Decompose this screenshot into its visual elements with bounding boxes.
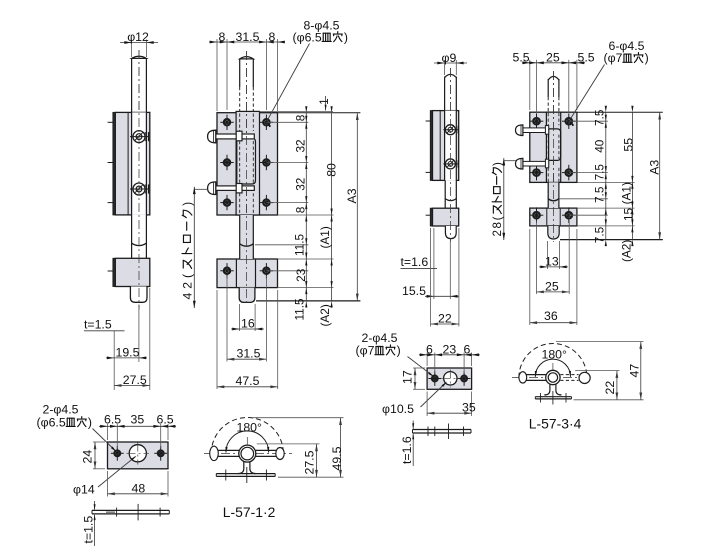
svg-text:40: 40 xyxy=(593,139,607,153)
keeper hole connector xyxy=(266,270,308,272)
svg-text:23: 23 xyxy=(443,343,457,357)
dimension 6.5/35/6.5 line xyxy=(99,425,176,427)
view4 rod tip xyxy=(548,226,559,239)
17 extensions xyxy=(413,367,425,369)
view1 rod right edge xyxy=(145,59,147,113)
svg-text:6.5: 6.5 xyxy=(157,413,174,427)
view1 knob circle y=189.0 xyxy=(133,183,145,195)
view2 rod between plates xyxy=(239,215,241,259)
view1 centerline overlay xyxy=(138,50,140,308)
svg-text:48: 48 xyxy=(132,481,146,495)
svg-text:49.5: 49.5 xyxy=(330,446,344,470)
svg-text:φ12: φ12 xyxy=(127,30,149,44)
svg-text:(A2): (A2) xyxy=(318,304,332,326)
plan2 vertical centerline xyxy=(552,363,554,385)
view2 centerline overlay xyxy=(246,51,248,304)
dim 1 arrow xyxy=(325,96,327,111)
svg-text:24: 24 xyxy=(81,450,95,464)
plan1 base bottom ref right xyxy=(278,476,344,478)
view2 rod centerline xyxy=(246,51,248,305)
view4 keeper hole right xyxy=(566,212,573,219)
svg-text:22: 22 xyxy=(438,312,452,326)
view2 handle bottom pin xyxy=(215,186,255,191)
plan1 arc arrows xyxy=(225,447,227,454)
view4 rod above body xyxy=(547,79,549,97)
dimension phi9 line xyxy=(434,62,467,64)
leader to hole view4 xyxy=(571,65,605,119)
view3 rod tip xyxy=(445,226,456,239)
view1 middle rod left xyxy=(131,215,133,258)
view2 screw hole (266.4,202.6) xyxy=(263,199,269,205)
stroke 28 dim line xyxy=(503,158,505,240)
svg-text:t=1.6: t=1.6 xyxy=(401,255,429,269)
view2 body channel xyxy=(236,111,259,215)
47.5 extension lines xyxy=(216,290,218,389)
view3 rod joint arc xyxy=(445,199,456,201)
view1 knob circle y=136.6 xyxy=(133,131,145,143)
view2 handle bottom collar xyxy=(236,184,242,193)
view4 knob top xyxy=(516,125,523,136)
view1 rod strip in front xyxy=(132,112,147,214)
dimension 22 plan2 xyxy=(616,371,618,400)
view3 mounting plate edge strip xyxy=(430,111,432,181)
keeper2 crosshair xyxy=(449,370,451,388)
view1 rod tip xyxy=(130,287,147,303)
view3 keeper block side xyxy=(433,208,459,226)
dimension 17 line xyxy=(414,368,416,389)
svg-text:32: 32 xyxy=(294,139,308,152)
svg-text:(A1): (A1) xyxy=(619,182,633,204)
view4 keeper bottom extended xyxy=(577,225,635,227)
view2 screw hole (227.0,202.6) xyxy=(224,199,230,205)
svg-text:(: ( xyxy=(491,216,504,220)
plan1 right bar xyxy=(256,449,277,451)
svg-text:15.5: 15.5 xyxy=(402,284,426,298)
svg-text:6: 6 xyxy=(426,343,433,357)
plan1 bracket stem xyxy=(238,462,257,474)
keeper2 center hole phi10.5 xyxy=(444,372,457,385)
svg-text:27.5: 27.5 xyxy=(303,450,317,474)
view4 keeper plate xyxy=(530,208,577,226)
svg-text:1: 1 xyxy=(319,98,331,104)
keeper1 plate xyxy=(108,442,169,469)
view2 mounting plate xyxy=(217,113,278,215)
svg-text:31.5: 31.5 xyxy=(236,30,260,44)
svg-text:55: 55 xyxy=(621,138,635,152)
t=1.5 dim arrows xyxy=(94,501,96,510)
svg-text:7.5: 7.5 xyxy=(593,164,607,181)
dimension 19.5 line xyxy=(106,357,147,359)
view1 body block xyxy=(115,112,150,214)
keeper1 hole right xyxy=(158,450,164,456)
leader keeper1 xyxy=(93,429,116,452)
svg-text:8: 8 xyxy=(219,30,226,44)
view4 hole connectors xyxy=(569,120,608,122)
view1 keeper plate edge strip xyxy=(113,258,115,286)
plan1 base ticks xyxy=(225,470,227,481)
view4 rod joint arc xyxy=(548,199,559,201)
svg-text:7.5: 7.5 xyxy=(593,109,607,126)
svg-text:13: 13 xyxy=(545,254,559,268)
plan1 dashed swing arc xyxy=(211,418,283,454)
keeper1 edge view bar xyxy=(92,509,169,511)
svg-text:8: 8 xyxy=(491,222,504,228)
13 extensions xyxy=(547,241,549,269)
view4 keeper slot edges xyxy=(546,209,548,226)
view4 body channel xyxy=(546,112,560,182)
view2 rod joint arc xyxy=(240,244,254,246)
view2 rod hidden above plate xyxy=(239,87,241,111)
dimension 6/23/6 line xyxy=(419,354,480,356)
view4 handle bottom collar xyxy=(545,159,548,168)
view4 mounting plate xyxy=(530,112,577,182)
view3 keeper plate strip xyxy=(430,208,432,226)
keeper top extended xyxy=(278,258,334,260)
view3 knob circle y=129.7 xyxy=(445,125,455,135)
svg-text:8: 8 xyxy=(294,206,308,213)
plan2 phantom knob xyxy=(579,372,590,383)
keeper2 hole right xyxy=(461,376,467,382)
svg-text:): ) xyxy=(88,415,92,429)
svg-text:6: 6 xyxy=(464,343,471,357)
phi9 extensions xyxy=(444,60,446,75)
view4 handle top pin xyxy=(523,128,549,133)
plan1 180deg arc xyxy=(226,431,269,452)
svg-text:31.5: 31.5 xyxy=(237,347,261,361)
svg-text:t=1.5: t=1.5 xyxy=(81,516,95,544)
svg-text:8: 8 xyxy=(269,30,276,44)
dimension 49.5 plan1 xyxy=(340,418,342,478)
view3 mid rod fill xyxy=(445,180,456,208)
view1 rod top dome xyxy=(132,56,147,58)
svg-text:t=1.5: t=1.5 xyxy=(84,318,112,332)
keeper2 edge ticks xyxy=(448,424,450,440)
view2 top extension lines xyxy=(216,39,218,111)
keeper1 center hole phi14 xyxy=(129,445,146,462)
svg-text:): ) xyxy=(645,51,649,65)
36 extensions xyxy=(529,229,531,325)
svg-text:): ) xyxy=(344,30,348,44)
view2 keeper plate xyxy=(217,259,278,288)
dimension 5.5/25/5.5 line xyxy=(522,62,585,64)
plate top extended to A3 xyxy=(278,112,361,114)
plan2 base ticks xyxy=(540,393,542,403)
16 extension lines xyxy=(239,304,241,331)
view3 keeper hole mark xyxy=(426,214,431,216)
keeper1 crosshair xyxy=(137,443,139,465)
view2 handle top collar xyxy=(236,131,242,141)
svg-text:(A2): (A2) xyxy=(619,240,633,262)
view4 screw hole (536.5,121.2) xyxy=(533,118,540,125)
plan1 vertical centerline xyxy=(246,437,248,462)
view1 mounting plate edge strip xyxy=(113,112,115,214)
view2 rod above body xyxy=(239,59,241,88)
view4 A3 dimension line xyxy=(659,112,661,239)
rod tip line extended to A3 xyxy=(256,300,360,302)
plan1 pivot outer circle xyxy=(239,445,256,462)
svg-text:25: 25 xyxy=(545,280,559,294)
svg-text:35: 35 xyxy=(462,401,476,415)
view4 keeper hole connector xyxy=(569,214,608,216)
view1 hole mark y=122.3 xyxy=(108,121,113,123)
view2 screw hole (227.0,162.5) xyxy=(224,159,230,165)
plan1 pivot inner circle xyxy=(241,447,254,460)
svg-text:2: 2 xyxy=(180,282,194,289)
dimension phi12 line xyxy=(120,42,158,44)
channel top extended (1 dim) xyxy=(260,110,334,112)
view1 rod strip edges xyxy=(131,112,133,214)
view4 slider block xyxy=(549,129,561,161)
plan2 right bar hidden xyxy=(560,374,578,376)
view1 rod joint arc xyxy=(132,243,147,245)
svg-text:φ14: φ14 xyxy=(73,482,95,496)
plan2 base edge xyxy=(535,396,571,398)
svg-text:(φ6.5: (φ6.5 xyxy=(293,30,322,44)
plan1 right knob xyxy=(276,448,284,460)
stroke 42 dim line xyxy=(193,187,195,308)
view4 screw hole (536.5,172.6) xyxy=(533,169,540,176)
plate bottom extended xyxy=(278,214,334,216)
dimension 16 line xyxy=(231,328,264,330)
leader keeper2 xyxy=(408,357,434,377)
svg-text:27.5: 27.5 xyxy=(123,373,147,387)
leader line to hole xyxy=(268,44,310,120)
svg-text:(: ( xyxy=(180,274,194,278)
view2 rod hidden segments xyxy=(239,114,241,132)
A3 dimension line xyxy=(356,113,358,301)
view3 middle rod xyxy=(444,180,446,208)
svg-text:φ10.5: φ10.5 xyxy=(382,402,414,416)
keeper1 edge ticks xyxy=(137,504,139,521)
svg-text:(A1): (A1) xyxy=(318,226,332,248)
svg-text:80: 80 xyxy=(325,163,339,177)
plan2 pivot inner circle xyxy=(548,373,557,382)
view2 knob top xyxy=(208,130,216,143)
view4 handle bottom pin xyxy=(523,161,549,166)
view3 rod strip in front xyxy=(445,111,457,181)
plan1 horizontal centerline xyxy=(204,453,292,455)
view1 hole mark y=202.6 xyxy=(108,202,113,204)
svg-text:23: 23 xyxy=(294,268,308,282)
dimension 36 line xyxy=(530,322,577,324)
svg-text:7.5: 7.5 xyxy=(593,186,607,203)
svg-text:): ) xyxy=(491,162,504,166)
15.5 extensions xyxy=(433,228,435,299)
31.5 extension lines xyxy=(226,276,228,362)
svg-text:5.5: 5.5 xyxy=(578,51,595,65)
hole row connectors xyxy=(266,121,308,123)
view2 slider block xyxy=(237,138,256,184)
svg-text:(φ7: (φ7 xyxy=(356,344,375,358)
plan2 bracket stem xyxy=(544,384,561,395)
svg-text:(φ6.5: (φ6.5 xyxy=(37,415,66,429)
svg-text:11.5: 11.5 xyxy=(293,298,307,321)
plan2 dashed swing arc xyxy=(519,344,587,378)
label 28 stroke xyxy=(491,162,504,237)
dimension 47 plan2 xyxy=(640,342,642,400)
svg-text:2-φ4.5: 2-φ4.5 xyxy=(43,402,79,416)
chain dimension line xyxy=(305,113,307,301)
svg-text:φ9: φ9 xyxy=(442,51,457,65)
svg-text:A3: A3 xyxy=(345,188,359,203)
view3 hole mark y=172.4 xyxy=(426,171,431,173)
svg-text:2: 2 xyxy=(491,230,504,236)
22 extensions xyxy=(430,228,432,327)
plan1 left knob xyxy=(210,446,219,460)
view4 knob bottom xyxy=(516,158,523,169)
keeper2 top extensions xyxy=(426,353,428,367)
dimension 31.5 line xyxy=(227,358,266,360)
view4 tube end connector xyxy=(559,198,608,200)
view3 body block xyxy=(433,111,459,181)
view2 screw hole (227.0,122.3) xyxy=(224,119,230,125)
plan2 47 top ref xyxy=(556,341,644,343)
25 extensions xyxy=(536,221,538,295)
view4 rod hidden xyxy=(547,97,549,112)
view3 centerline overlay xyxy=(449,68,451,241)
view4 rod hidden segments xyxy=(547,113,549,125)
view1 lower extension lines xyxy=(113,331,115,390)
view1 middle rod right xyxy=(145,215,147,258)
view2 screw hole (266.4,122.3) xyxy=(263,119,269,125)
view1 body channel edge line xyxy=(127,112,129,214)
view4 top extensions xyxy=(529,60,531,110)
svg-text:t=1.6: t=1.6 xyxy=(400,436,414,464)
keeper2 plate xyxy=(427,368,472,389)
tube end connector xyxy=(255,244,308,246)
view1 rod centerline xyxy=(138,50,140,310)
view2 keeper hole left xyxy=(224,268,230,274)
svg-text:L-57-1·2: L-57-1·2 xyxy=(223,504,276,520)
svg-text:11.5: 11.5 xyxy=(293,233,307,256)
second dimension line 80/A1/A2 xyxy=(331,113,333,301)
svg-text:7.5: 7.5 xyxy=(593,226,607,243)
keeper bottom extended xyxy=(278,287,334,289)
view4 plate top extended xyxy=(577,111,663,113)
svg-text:16: 16 xyxy=(241,317,255,331)
view4 mid rod fill xyxy=(548,182,559,208)
plan2 22 top ref xyxy=(575,370,620,372)
plan2 left knob xyxy=(519,372,527,383)
phi12 extension lines xyxy=(131,40,133,58)
view1 rod left edge xyxy=(131,59,133,113)
svg-text:): ) xyxy=(180,202,194,206)
view2 knob bottom xyxy=(208,182,216,195)
view3 hole mark y=121.0 xyxy=(426,120,431,122)
svg-text:32: 32 xyxy=(294,178,308,191)
keeper1 hole left xyxy=(114,450,120,456)
view2 handle top pin xyxy=(215,134,255,139)
view4 keeper top extended xyxy=(577,207,635,209)
dimension 8/31.5/8 line xyxy=(209,41,285,43)
label 42 stroke xyxy=(180,202,194,300)
plan2 base bottom ref xyxy=(574,399,644,401)
view4 rod tip line extended xyxy=(560,239,663,241)
view3 rod top dome xyxy=(445,74,457,77)
plan1 27.5 top ref xyxy=(257,443,320,445)
view1 keeper hole mark xyxy=(108,270,113,272)
plan1 base ends xyxy=(215,474,217,477)
svg-text:35: 35 xyxy=(131,413,145,427)
view4 rod between plates xyxy=(547,182,549,208)
view2 rod tip xyxy=(239,288,255,303)
view2 mid rod fill xyxy=(240,215,254,259)
t=1.6 dim arrows xyxy=(412,421,414,429)
view4 screw hole (568.8,121.2) xyxy=(566,118,573,125)
plan2 left bar xyxy=(527,374,547,376)
dimension 35 line xyxy=(427,412,472,414)
view4 rod top dome xyxy=(548,76,559,80)
plan2 arc arrows xyxy=(535,371,537,378)
view2 screw hole (266.4,162.5) xyxy=(263,159,269,165)
dimension 24 line xyxy=(94,442,96,469)
view4 second line xyxy=(631,112,633,239)
view2 keeper slot edges xyxy=(235,260,237,287)
view4 rod centerline xyxy=(553,71,555,242)
plan2 pivot outer circle xyxy=(546,370,560,384)
svg-text:19.5: 19.5 xyxy=(116,345,140,359)
svg-text:25: 25 xyxy=(546,51,560,65)
svg-text:17: 17 xyxy=(401,370,415,384)
plan1 left bar xyxy=(218,449,240,451)
view2 keeper hole right xyxy=(263,268,269,274)
plan1 base plate edge xyxy=(216,473,275,475)
svg-text:47.5: 47.5 xyxy=(236,374,260,388)
svg-text:6.5: 6.5 xyxy=(104,413,121,427)
keeper2 edge bar xyxy=(413,429,472,431)
svg-text:180°: 180° xyxy=(237,421,263,435)
plan2 horizontal centerline xyxy=(512,377,592,379)
keeper2 hole left xyxy=(432,376,438,382)
dimension 15.5 line xyxy=(425,295,459,297)
plan1 49.5 top ref xyxy=(252,417,344,419)
view3 channel edge line xyxy=(439,111,441,181)
plan2 base ends xyxy=(534,397,536,399)
keeper1 top extensions xyxy=(107,424,109,440)
svg-text:180°: 180° xyxy=(542,348,568,362)
view4 keeper hole left xyxy=(533,212,540,219)
dimension 13 line xyxy=(539,266,568,268)
view4 chain line xyxy=(605,112,607,239)
view1 keeper block side xyxy=(115,258,150,286)
view3 rod centerline xyxy=(449,68,451,242)
svg-text:15: 15 xyxy=(621,207,635,221)
svg-text:22: 22 xyxy=(603,381,617,395)
plan2 180deg arc xyxy=(535,359,570,377)
dimension 22 line xyxy=(431,323,459,325)
view4 plate bottom extended xyxy=(577,181,635,183)
svg-text:L-57-3·4: L-57-3·4 xyxy=(529,416,582,432)
35 extensions keeper2 xyxy=(426,392,428,417)
dimension 47.5 line xyxy=(217,386,278,388)
svg-text:(φ7: (φ7 xyxy=(604,51,623,65)
view2 rod top dome xyxy=(240,57,254,59)
stroke connector xyxy=(194,188,207,190)
24 extensions xyxy=(93,441,105,443)
svg-text:36: 36 xyxy=(544,309,558,323)
svg-text:8: 8 xyxy=(294,114,308,121)
view3 knob circle y=163.9 xyxy=(445,159,455,169)
view1 hole mark y=162.5 xyxy=(108,162,113,164)
view1 mid rod fill xyxy=(132,215,147,258)
48 extensions xyxy=(107,471,109,497)
view4 handle top collar xyxy=(545,126,548,135)
dimension 27.5 line xyxy=(114,385,150,387)
view3 rod strip edges xyxy=(444,111,446,181)
view4 centerline overlay xyxy=(553,71,555,241)
dimension 27.5 plan1 xyxy=(316,444,318,477)
svg-text:5.5: 5.5 xyxy=(513,51,530,65)
